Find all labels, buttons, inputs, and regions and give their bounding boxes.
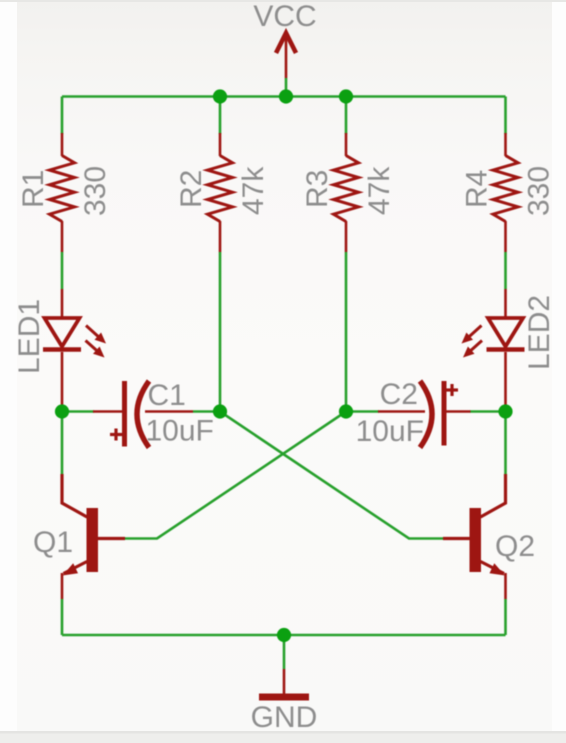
wire R2 top lead [219, 97, 222, 135]
wire bottom rail [62, 634, 506, 637]
node D [498, 404, 512, 418]
resistor R4 [493, 133, 518, 252]
wire R1-LED1 [61, 252, 64, 289]
capacitor C2 [378, 381, 471, 448]
wire GND drop [283, 635, 286, 669]
wire Q2 emitter down [504, 599, 507, 635]
junction top-left [213, 89, 227, 103]
wire node C to C2 [346, 410, 379, 413]
resistor R3 [334, 133, 359, 252]
wire R4 top lead [504, 97, 507, 135]
svg-text:R2: R2 [175, 170, 208, 208]
transistor Q2 [443, 474, 506, 599]
wire R3 bottom to node [345, 252, 348, 412]
svg-text:47k: 47k [363, 166, 396, 215]
svg-text:330: 330 [523, 166, 556, 216]
wire R3 top lead [345, 97, 348, 135]
svg-text:Q2: Q2 [495, 530, 535, 563]
wire C1 to node B [193, 410, 220, 413]
wire top rail [62, 95, 506, 98]
svg-text:10uF: 10uF [356, 415, 424, 448]
junction top-VCC [279, 89, 293, 103]
wire node A to C1 [62, 410, 94, 413]
svg-text:10uF: 10uF [146, 415, 214, 448]
transistor Q1 [62, 474, 125, 599]
svg-text:LED1: LED1 [13, 299, 46, 374]
wire R1 top lead [61, 97, 64, 135]
wire Q1 base cross-couple to node C [125, 412, 346, 539]
supply VCC [276, 33, 296, 78]
junction top-right [339, 89, 353, 103]
svg-text:C2: C2 [380, 378, 418, 411]
diode LED2 [462, 289, 525, 406]
svg-text:R4: R4 [461, 170, 494, 208]
diode LED1 [43, 289, 106, 406]
svg-text:C1: C1 [148, 379, 186, 412]
svg-text:47k: 47k [237, 166, 270, 215]
wire C2 to node D [470, 410, 506, 413]
wire Q2 base cross-couple to node B [220, 412, 443, 539]
node A [55, 404, 69, 418]
junction bottom [277, 628, 291, 642]
node B [213, 404, 227, 418]
wire node A to Q1 collector [61, 412, 64, 475]
resistor R2 [208, 133, 233, 252]
wire VCC drop [285, 78, 288, 97]
capacitor C1 [93, 381, 193, 448]
wire R2 bottom to node [219, 252, 222, 412]
svg-text:Q1: Q1 [33, 526, 73, 559]
wire Q1 emitter down [61, 599, 64, 635]
wire R4-LED2 [504, 252, 507, 289]
svg-text:GND: GND [251, 701, 318, 734]
resistor R1 [50, 133, 75, 252]
svg-text:R3: R3 [301, 170, 334, 208]
svg-text:R1: R1 [17, 170, 50, 208]
svg-text:LED2: LED2 [523, 295, 556, 370]
svg-text:330: 330 [79, 166, 112, 216]
ground GND [259, 669, 309, 697]
node C [339, 404, 353, 418]
wire node D to Q2 collector [504, 412, 507, 475]
svg-text:VCC: VCC [253, 0, 316, 33]
